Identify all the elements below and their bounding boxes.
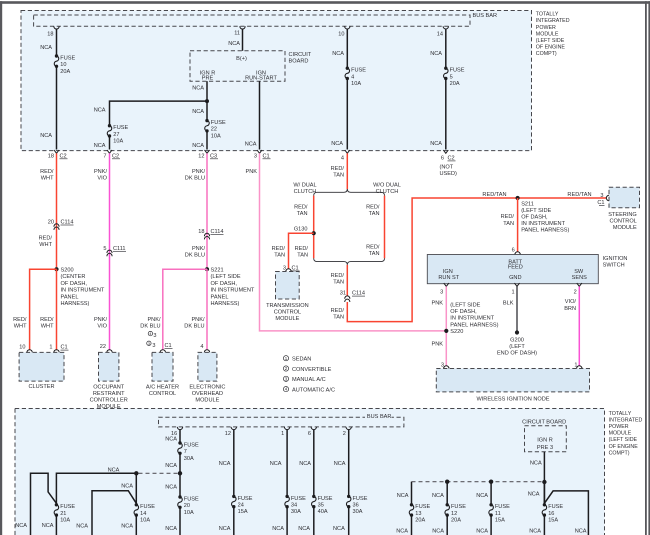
svg-text:(NOT: (NOT xyxy=(440,165,454,171)
svg-text:C2: C2 xyxy=(448,155,455,161)
svg-text:10: 10 xyxy=(60,62,66,68)
svg-text:MANUAL A/C: MANUAL A/C xyxy=(292,377,326,383)
svg-text:(LEFT SIDE: (LEFT SIDE xyxy=(536,38,565,44)
wire pin 2 to fuse 36 xyxy=(346,427,351,430)
svg-text:13: 13 xyxy=(415,511,421,517)
fuse F10 20A xyxy=(55,54,58,57)
svg-text:3: 3 xyxy=(152,343,155,349)
svg-text:IN INSTRUMENT: IN INSTRUMENT xyxy=(61,288,105,294)
svg-text:RED/: RED/ xyxy=(295,246,309,252)
svg-text:WHT: WHT xyxy=(41,324,54,330)
svg-text:W/O DUAL: W/O DUAL xyxy=(373,182,401,188)
legend option 3 manual a/c xyxy=(283,376,288,381)
wire PNK/DK BLU branch to A/C heater control xyxy=(163,269,207,350)
svg-text:4: 4 xyxy=(200,344,203,350)
svg-text:S211: S211 xyxy=(521,201,534,207)
wire BLK from ignition switch pin 1 xyxy=(516,286,518,332)
svg-text:RESTRAINT: RESTRAINT xyxy=(93,391,125,397)
electronic overhead module entry xyxy=(204,350,209,353)
svg-text:34: 34 xyxy=(291,503,297,509)
svg-text:WIRELESS IGNITION NODE: WIRELESS IGNITION NODE xyxy=(476,396,549,402)
svg-text:FUSE: FUSE xyxy=(415,504,430,510)
module box: OCCUPANT RESTRAINT CONTROLLER MODULE xyxy=(99,352,119,381)
svg-text:NCA: NCA xyxy=(575,529,587,535)
svg-text:FUSE: FUSE xyxy=(238,496,253,502)
wire F from bus bar pin 14 xyxy=(443,26,448,29)
svg-text:FUSE: FUSE xyxy=(60,504,75,510)
svg-text:PANEL HARNESS): PANEL HARNESS) xyxy=(521,228,569,234)
svg-text:NCA: NCA xyxy=(121,524,133,530)
svg-text:FUSE: FUSE xyxy=(184,442,199,448)
wire C from IGN R PRE xyxy=(206,81,208,120)
svg-text:NCA: NCA xyxy=(432,493,444,499)
svg-text:NCA: NCA xyxy=(528,492,540,498)
svg-text:FUSE: FUSE xyxy=(113,125,128,131)
svg-text:RED/: RED/ xyxy=(40,169,54,175)
fuse F4 10A xyxy=(346,67,349,70)
svg-text:RED/TAN: RED/TAN xyxy=(482,192,506,198)
svg-text:18: 18 xyxy=(198,229,204,235)
svg-text:TAN: TAN xyxy=(369,251,380,257)
wireless ignition node entry pin 3 xyxy=(444,366,449,369)
wire RED/TAN from pin 4 xyxy=(346,153,348,189)
svg-text:NCA: NCA xyxy=(334,461,346,467)
svg-text:(LEFT SIDE: (LEFT SIDE xyxy=(450,303,480,309)
wire from junction to fuse 16 xyxy=(543,482,545,505)
svg-text:WHT: WHT xyxy=(14,324,27,330)
svg-text:PNK/: PNK/ xyxy=(94,317,108,323)
svg-text:HARNESS): HARNESS) xyxy=(61,301,90,307)
svg-text:1: 1 xyxy=(281,431,284,437)
svg-text:VIO/: VIO/ xyxy=(565,299,577,305)
svg-text:20A: 20A xyxy=(415,518,425,524)
svg-text:NCA: NCA xyxy=(476,529,488,535)
svg-text:3: 3 xyxy=(600,193,603,199)
wire below fuse 35 xyxy=(313,507,315,535)
svg-text:RED/TAN: RED/TAN xyxy=(567,192,591,198)
svg-text:FUSE: FUSE xyxy=(451,504,466,510)
svg-text:PNK/: PNK/ xyxy=(192,246,206,252)
module box: TRANSMISSION CONTROL MODULE xyxy=(276,272,300,300)
connector exit 3 C1 xyxy=(257,150,262,153)
svg-text:OF DASH,: OF DASH, xyxy=(521,215,548,221)
fuse F27 10A xyxy=(108,124,111,127)
svg-text:OF DASH,: OF DASH, xyxy=(211,281,238,287)
TCM entry 3 C1 xyxy=(286,269,291,272)
fuse F24 15A xyxy=(232,495,235,498)
module box: IGNITION SWITCH xyxy=(427,255,598,284)
svg-text:NCA: NCA xyxy=(121,483,133,489)
svg-text:VIO: VIO xyxy=(97,324,107,330)
svg-text:W/ DUAL: W/ DUAL xyxy=(293,182,316,188)
svg-text:NCA: NCA xyxy=(219,526,231,532)
svg-text:BUS BAR: BUS BAR xyxy=(473,13,498,19)
svg-text:TAN: TAN xyxy=(333,172,344,178)
svg-text:POWER: POWER xyxy=(536,25,556,31)
wire RED/TAN drop to ignition switch BATT FEED xyxy=(517,198,519,252)
svg-text:TAN: TAN xyxy=(297,211,308,217)
wire RED/TAN branch to transmission control module xyxy=(289,233,314,269)
svg-text:CLUTCH: CLUTCH xyxy=(294,189,317,195)
svg-text:NCA: NCA xyxy=(397,493,409,499)
svg-text:BOARD: BOARD xyxy=(289,59,309,65)
pin labels 4-3 / 3-3 C1 xyxy=(148,331,152,335)
fuse F21 10A xyxy=(55,503,58,506)
svg-text:16: 16 xyxy=(548,511,554,517)
svg-text:PNK/: PNK/ xyxy=(191,317,205,323)
svg-text:C1: C1 xyxy=(292,265,299,271)
svg-text:S221: S221 xyxy=(211,268,224,274)
window left border xyxy=(0,1,2,535)
fuse F36 30A xyxy=(347,495,350,498)
svg-text:NCA: NCA xyxy=(165,463,177,469)
svg-text:NCA: NCA xyxy=(299,461,311,467)
wire PNK/DK BLU xyxy=(206,153,208,267)
wire VIO/BRN from ignition switch pin 2 xyxy=(578,286,580,365)
svg-text:NCA: NCA xyxy=(430,51,442,57)
wire RED/TAN to steering column riser xyxy=(347,198,606,322)
svg-text:RED/: RED/ xyxy=(331,166,345,172)
svg-text:3: 3 xyxy=(440,289,443,295)
svg-text:NCA: NCA xyxy=(432,529,444,535)
svg-text:OCCUPANT: OCCUPANT xyxy=(93,385,125,391)
svg-text:PNK: PNK xyxy=(431,300,443,306)
svg-text:20A: 20A xyxy=(450,81,460,87)
module box: Totally Integrated Power Module (top) xyxy=(21,11,532,151)
svg-text:MODULE: MODULE xyxy=(609,431,632,437)
junction node xyxy=(134,471,138,475)
svg-text:OVERHEAD: OVERHEAD xyxy=(192,391,223,397)
wire pin 16 to fuse 7 xyxy=(177,427,182,430)
wire C below fuse 22 xyxy=(206,131,208,150)
wire E from bus bar pin 10 xyxy=(345,26,350,29)
pin 11 wire to B(+) xyxy=(240,26,245,29)
svg-text:3: 3 xyxy=(153,333,156,339)
svg-text:END OF DASH): END OF DASH) xyxy=(497,350,537,356)
svg-text:NCA: NCA xyxy=(40,133,52,139)
svg-text:WHT: WHT xyxy=(39,242,52,248)
connector exit 7 C2 xyxy=(107,150,112,153)
cluster entries xyxy=(27,350,32,353)
svg-text:TAN: TAN xyxy=(369,211,380,217)
svg-text:NCA: NCA xyxy=(15,523,27,529)
svg-text:WHT: WHT xyxy=(41,176,54,182)
svg-text:S220: S220 xyxy=(450,329,463,335)
svg-text:NCA: NCA xyxy=(192,143,204,149)
svg-text:RED/: RED/ xyxy=(366,204,380,210)
wire below fuse 11 xyxy=(490,515,492,535)
wire PNK/VIO xyxy=(109,153,111,350)
right branch over fuse 16 xyxy=(544,491,588,535)
dashed option link xyxy=(139,472,178,474)
svg-text:20A: 20A xyxy=(451,518,461,524)
svg-text:TAN: TAN xyxy=(333,315,344,321)
svg-text:C1: C1 xyxy=(597,200,604,206)
svg-text:(LEFT SIDE: (LEFT SIDE xyxy=(211,274,241,280)
svg-text:OF DASH,: OF DASH, xyxy=(450,309,477,315)
svg-text:NCA: NCA xyxy=(272,526,284,532)
svg-text:CONTROL: CONTROL xyxy=(149,391,176,397)
svg-text:3: 3 xyxy=(254,153,257,159)
svg-text:FUSE: FUSE xyxy=(318,496,333,502)
fuse F34 30A xyxy=(285,495,288,498)
svg-text:TAN: TAN xyxy=(333,280,344,286)
fuse F16 15A xyxy=(543,503,546,506)
svg-text:14: 14 xyxy=(140,511,146,517)
svg-text:PNK/: PNK/ xyxy=(192,169,206,175)
svg-text:NCA: NCA xyxy=(192,86,204,92)
splice S200 xyxy=(54,267,58,271)
ground G200 xyxy=(515,330,519,334)
fuse F13 20A xyxy=(410,503,413,506)
svg-text:10A: 10A xyxy=(140,518,150,524)
junction node on wire C xyxy=(205,99,209,103)
svg-text:TOTALLY: TOTALLY xyxy=(609,411,632,417)
svg-text:MODULE: MODULE xyxy=(195,398,219,404)
svg-text:30A: 30A xyxy=(184,456,194,462)
svg-text:18: 18 xyxy=(48,153,54,159)
wire below fuse 12 xyxy=(446,515,448,535)
svg-text:NCA: NCA xyxy=(76,524,88,530)
svg-text:TAN: TAN xyxy=(297,252,308,258)
svg-text:PRE: PRE xyxy=(202,75,214,81)
svg-text:NCA: NCA xyxy=(430,141,442,147)
svg-text:10: 10 xyxy=(338,32,344,38)
fuse F14 10A xyxy=(135,503,138,506)
svg-text:14: 14 xyxy=(437,32,443,38)
svg-text:RED/: RED/ xyxy=(13,317,27,323)
module box: ELECTRONIC OVERHEAD MODULE xyxy=(198,352,217,381)
fuse F20 10A xyxy=(178,495,181,498)
connector exit 12 C3 xyxy=(205,150,210,153)
svg-text:FUSE: FUSE xyxy=(548,504,563,510)
svg-text:11: 11 xyxy=(495,511,501,517)
svg-text:CONTROL: CONTROL xyxy=(609,219,636,225)
wire A from bus bar pin 18 xyxy=(54,26,59,29)
svg-text:HARNESS): HARNESS) xyxy=(211,301,240,307)
svg-text:CIRCUIT: CIRCUIT xyxy=(289,52,312,58)
svg-text:DK BLU: DK BLU xyxy=(140,324,160,330)
wire PNK/DK BLU to electronic overhead module pin 4 xyxy=(206,269,208,350)
wire from bus to fuse 11 xyxy=(490,482,492,505)
svg-text:NCA: NCA xyxy=(529,529,541,535)
svg-text:NCA: NCA xyxy=(396,529,408,535)
svg-text:G130: G130 xyxy=(294,226,308,232)
wire pin 12 to fuse 24 xyxy=(231,427,236,430)
svg-text:RUN ST: RUN ST xyxy=(438,275,459,281)
svg-text:NCA: NCA xyxy=(165,526,177,532)
svg-text:4: 4 xyxy=(341,155,344,161)
svg-text:30A: 30A xyxy=(291,509,301,515)
wire below fuse 20 xyxy=(179,507,181,535)
fuse F7 30A xyxy=(178,441,181,444)
svg-text:NCA: NCA xyxy=(332,51,344,57)
svg-text:SEDAN: SEDAN xyxy=(292,357,311,363)
svg-text:10: 10 xyxy=(19,345,25,351)
svg-text:POWER: POWER xyxy=(609,424,629,430)
svg-text:(LEFT: (LEFT xyxy=(509,344,525,350)
svg-text:NCA: NCA xyxy=(94,108,106,114)
svg-text:C114: C114 xyxy=(211,229,224,235)
svg-text:6: 6 xyxy=(512,247,515,253)
wire from IGN R PRE 3 xyxy=(543,452,545,505)
svg-text:NCA: NCA xyxy=(270,461,282,467)
svg-text:ELECTRONIC: ELECTRONIC xyxy=(189,385,225,391)
splice G130 xyxy=(312,231,316,235)
svg-text:FUSE: FUSE xyxy=(140,504,155,510)
svg-text:12: 12 xyxy=(225,431,231,437)
svg-text:FEED: FEED xyxy=(508,265,523,271)
svg-text:INTEGRATED: INTEGRATED xyxy=(609,417,643,423)
wire B below fuse 27 xyxy=(109,136,111,150)
wire below fuse 21 xyxy=(55,515,57,535)
svg-text:DK BLU: DK BLU xyxy=(185,176,205,182)
fuse F11 15A xyxy=(489,503,492,506)
svg-text:S200: S200 xyxy=(61,268,74,274)
svg-text:RED/: RED/ xyxy=(272,246,286,252)
svg-text:IN INSTRUMENT: IN INSTRUMENT xyxy=(211,288,255,294)
svg-text:USED): USED) xyxy=(440,171,458,177)
svg-text:G200: G200 xyxy=(510,338,524,344)
wire from bus to fuse 12 xyxy=(446,482,448,505)
svg-text:(LEFT SIDE: (LEFT SIDE xyxy=(609,437,638,443)
junction node right bus xyxy=(542,480,546,484)
wire from junction to fuse 14 xyxy=(135,473,137,505)
svg-text:10A: 10A xyxy=(113,139,123,145)
svg-text:NCA: NCA xyxy=(476,493,488,499)
svg-text:(LEFT SIDE: (LEFT SIDE xyxy=(521,208,551,214)
svg-text:C3: C3 xyxy=(210,153,217,159)
svg-text:A/C HEATER: A/C HEATER xyxy=(146,385,179,391)
svg-text:15A: 15A xyxy=(495,518,505,524)
svg-text:TRANSMISSION: TRANSMISSION xyxy=(266,303,309,309)
svg-text:36: 36 xyxy=(353,503,359,509)
svg-text:31: 31 xyxy=(340,291,346,297)
wire A below fuse 10 xyxy=(56,66,58,149)
legend option 4 automatic a/c xyxy=(283,387,288,392)
svg-text:21: 21 xyxy=(60,511,66,517)
module box: STEERING CONTROL MODULE xyxy=(609,187,640,208)
wire D from IGN RUN-START xyxy=(259,81,261,149)
splice S211 xyxy=(516,196,520,200)
svg-text:1: 1 xyxy=(511,289,514,295)
wire F below fuse 5 xyxy=(445,79,447,150)
brace merge below dual clutch xyxy=(314,258,385,265)
svg-text:C111: C111 xyxy=(113,246,126,252)
svg-text:2: 2 xyxy=(343,431,346,437)
svg-text:2: 2 xyxy=(574,289,577,295)
svg-text:NCA: NCA xyxy=(192,109,204,115)
svg-text:18: 18 xyxy=(47,32,53,38)
svg-text:TAN: TAN xyxy=(503,221,514,227)
splice S220 xyxy=(444,329,448,333)
svg-text:C2: C2 xyxy=(112,153,119,159)
svg-text:3: 3 xyxy=(283,265,286,271)
svg-text:CONTROLLER: CONTROLLER xyxy=(90,398,128,404)
svg-text:35: 35 xyxy=(318,503,324,509)
svg-text:MODULE: MODULE xyxy=(536,31,559,37)
svg-text:20: 20 xyxy=(48,220,54,226)
svg-text:COMPT): COMPT) xyxy=(609,450,630,456)
wire below fuse 7 xyxy=(179,453,181,497)
svg-text:INTEGRATED: INTEGRATED xyxy=(536,18,570,24)
svg-text:RUN-START: RUN-START xyxy=(245,75,277,81)
svg-text:22: 22 xyxy=(100,344,106,350)
svg-text:22: 22 xyxy=(211,127,217,133)
wire below fuse 36 xyxy=(348,507,350,535)
window right border xyxy=(645,1,647,535)
svg-text:FUSE: FUSE xyxy=(291,496,306,502)
label: BUS BAR (bottom) xyxy=(365,413,392,419)
svg-text:(CENTER: (CENTER xyxy=(61,274,86,280)
svg-text:RED/: RED/ xyxy=(331,273,345,279)
wire RED/WHT main xyxy=(56,153,58,267)
connector exit pin 4 xyxy=(345,150,350,153)
wire pin 6 to fuse 35 xyxy=(311,427,316,430)
svg-text:NCA: NCA xyxy=(108,467,120,473)
svg-text:11: 11 xyxy=(234,30,240,36)
svg-text:NCA: NCA xyxy=(333,526,345,532)
module box: WIRELESS IGNITION NODE xyxy=(436,369,589,392)
svg-text:FUSE: FUSE xyxy=(211,120,226,126)
connector exit 18 C2 xyxy=(54,150,59,153)
svg-text:FUSE: FUSE xyxy=(351,68,366,74)
svg-text:C114: C114 xyxy=(61,220,74,226)
svg-text:PNK/: PNK/ xyxy=(147,317,161,323)
connector exit 6 C2 not used xyxy=(443,150,448,153)
svg-text:5: 5 xyxy=(450,74,453,80)
wire RED/WHT to cluster pin 1 xyxy=(56,269,58,350)
wire pin 1 to fuse 34 xyxy=(284,427,289,430)
svg-text:TAN: TAN xyxy=(274,252,285,258)
svg-text:PNK/: PNK/ xyxy=(94,169,108,175)
svg-text:CIRCUIT BOARD: CIRCUIT BOARD xyxy=(522,420,566,426)
svg-text:DK BLU: DK BLU xyxy=(185,252,205,258)
svg-text:PNK: PNK xyxy=(245,169,257,175)
svg-text:IGN R: IGN R xyxy=(537,438,553,444)
wire below fuse 14 xyxy=(135,515,137,535)
svg-text:RED/: RED/ xyxy=(366,244,380,250)
svg-text:RED/: RED/ xyxy=(501,214,515,220)
svg-text:15A: 15A xyxy=(548,518,558,524)
svg-text:NCA: NCA xyxy=(530,461,542,467)
wire below fuse 34 xyxy=(286,507,288,535)
svg-text:1: 1 xyxy=(49,345,52,351)
svg-text:IN INSTRUMENT: IN INSTRUMENT xyxy=(450,316,494,322)
svg-text:OF ENGINE: OF ENGINE xyxy=(609,444,639,450)
svg-text:7: 7 xyxy=(184,449,187,455)
svg-text:24: 24 xyxy=(238,503,244,509)
svg-text:C1: C1 xyxy=(263,153,270,159)
svg-text:20A: 20A xyxy=(60,69,70,75)
wire below fuse 24 xyxy=(233,507,235,535)
svg-text:PANEL HARNESS): PANEL HARNESS) xyxy=(450,322,498,328)
dashed option bus right xyxy=(412,481,543,483)
svg-text:FUSE: FUSE xyxy=(60,55,75,61)
svg-text:NCA: NCA xyxy=(219,461,231,467)
svg-text:NCA: NCA xyxy=(94,143,106,149)
wire left leg down xyxy=(31,473,57,535)
window top border xyxy=(0,1,650,4)
wireless ignition node entry pin 1 xyxy=(577,366,582,369)
svg-text:CONTROL: CONTROL xyxy=(274,309,301,315)
svg-text:10A: 10A xyxy=(60,518,70,524)
fuse F5 20A xyxy=(444,67,447,70)
svg-text:RED/: RED/ xyxy=(294,204,308,210)
svg-text:PANEL: PANEL xyxy=(211,294,229,300)
svg-text:FUSE: FUSE xyxy=(450,68,465,74)
svg-text:NCA: NCA xyxy=(298,526,310,532)
